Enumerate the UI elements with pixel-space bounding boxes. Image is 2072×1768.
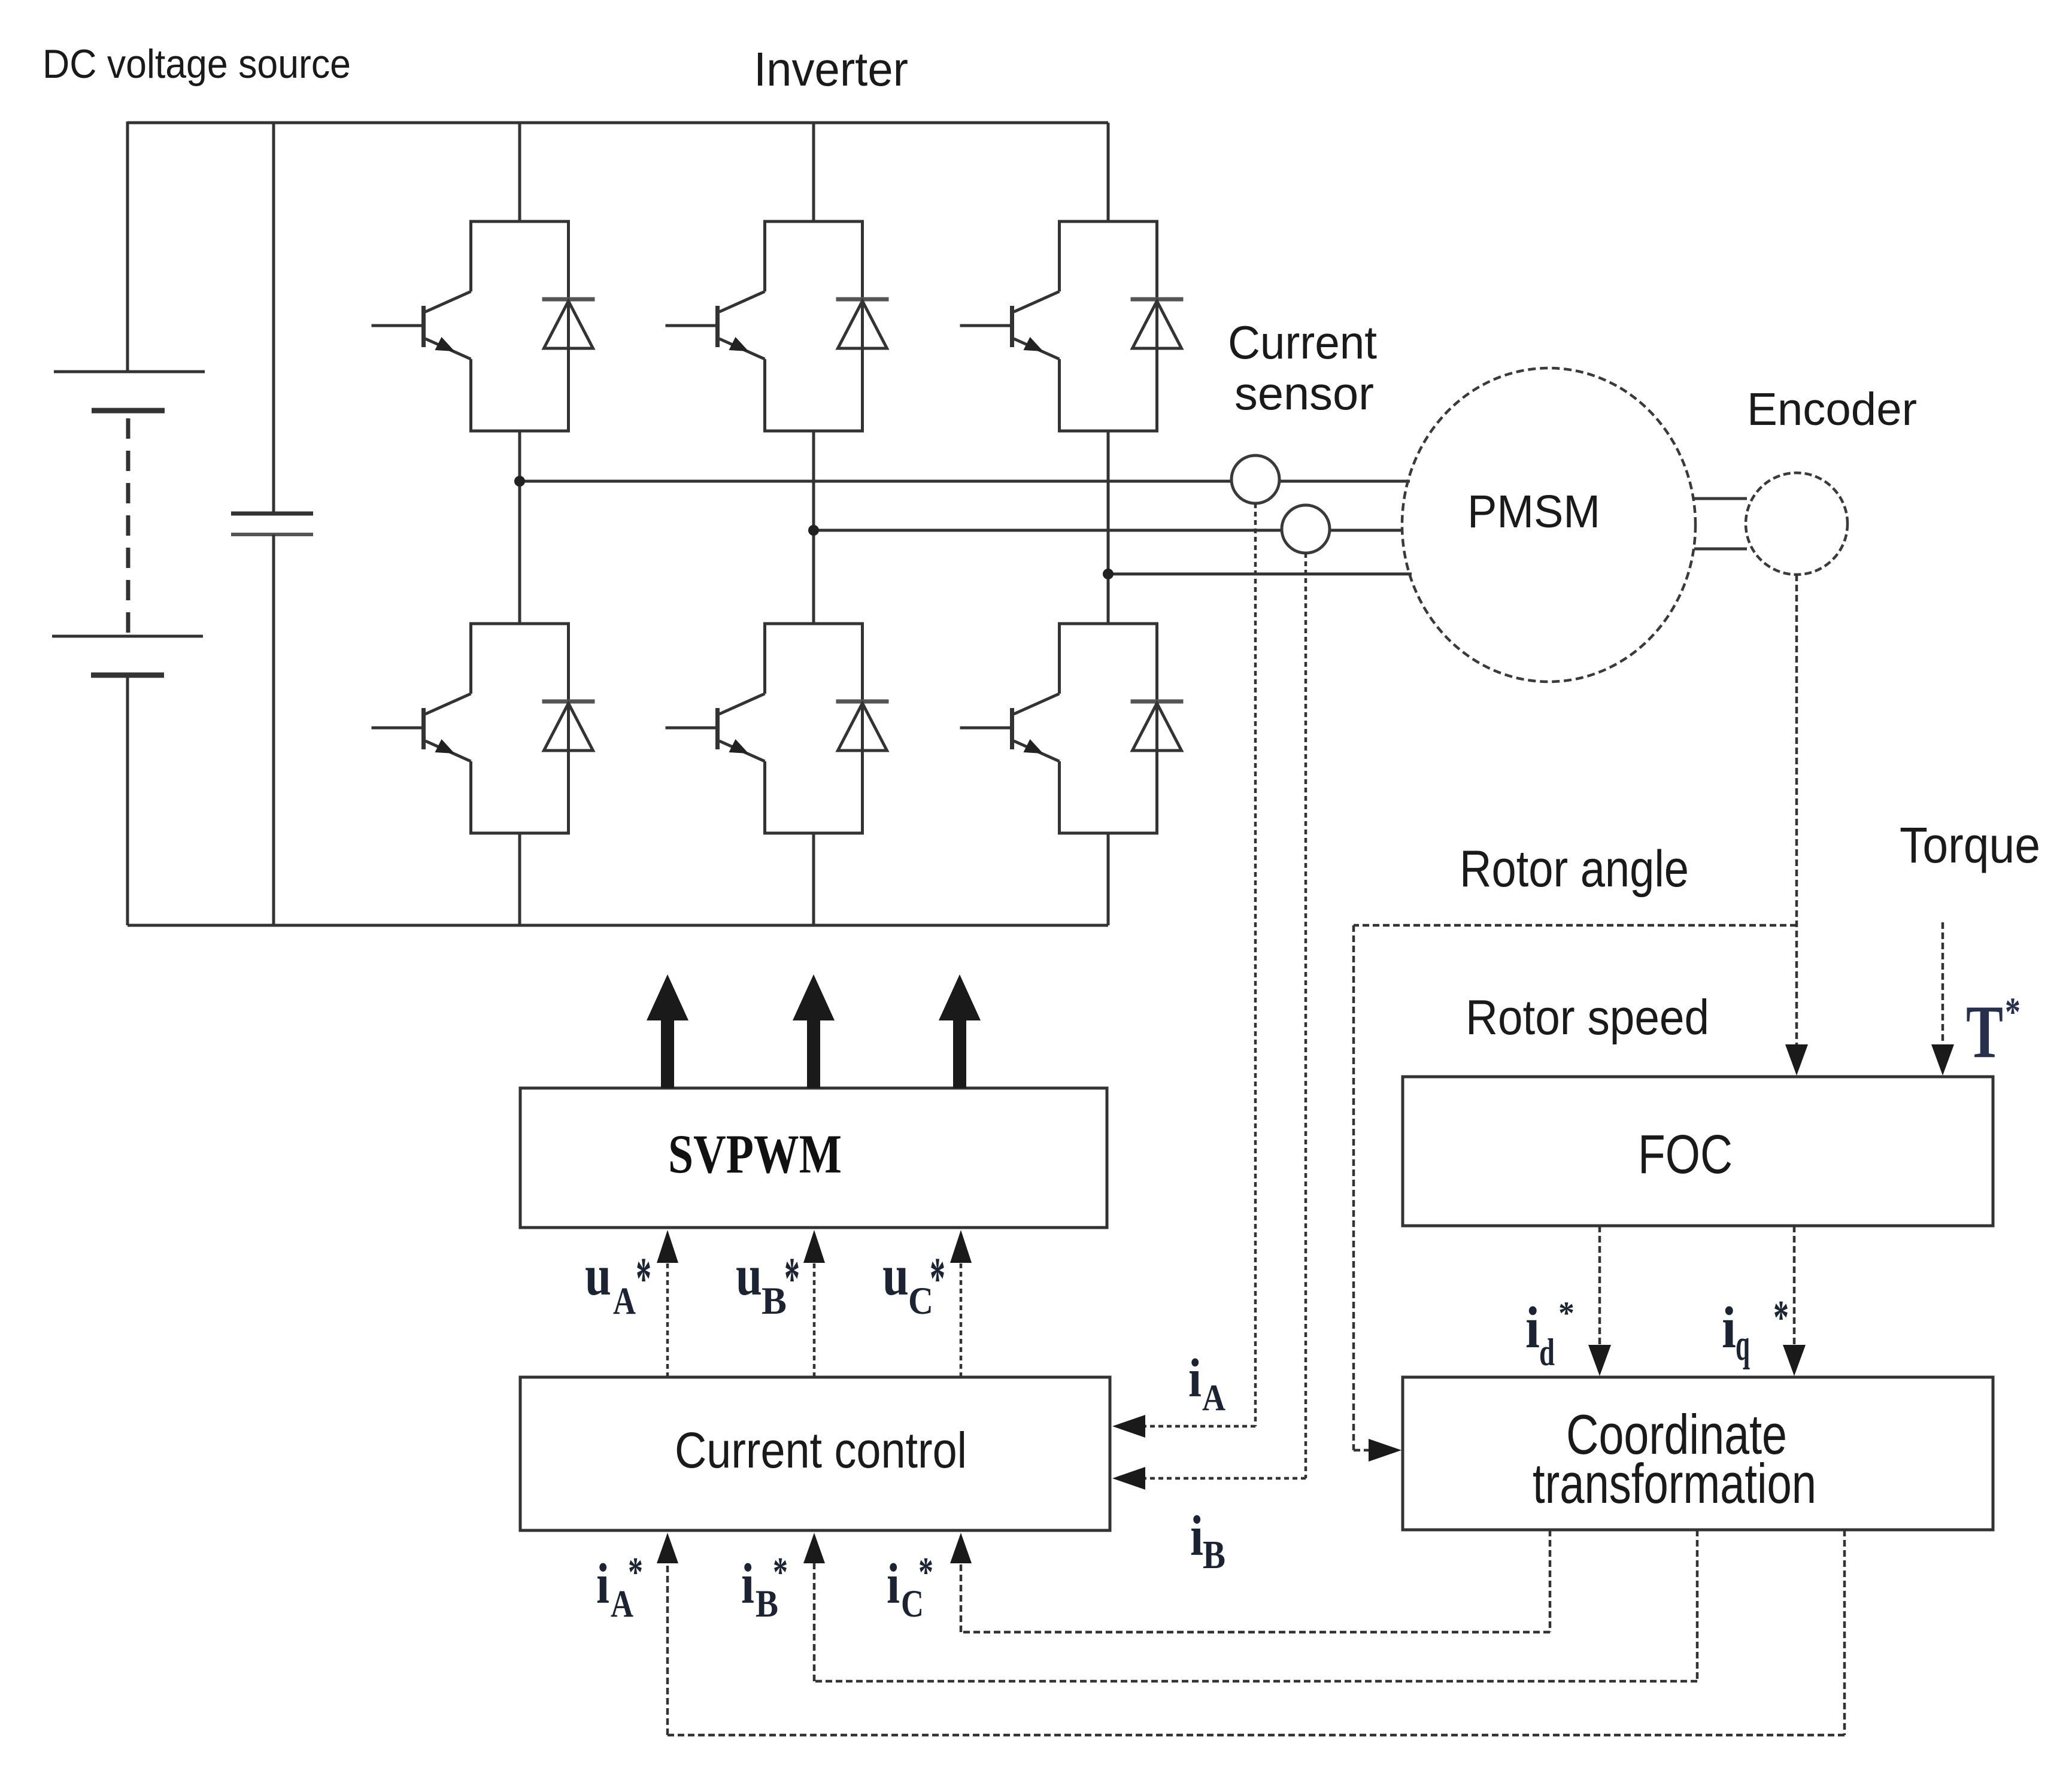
svg-text:i: i bbox=[596, 1552, 609, 1615]
svg-text:*: * bbox=[2005, 989, 2021, 1034]
svg-text:Current: Current bbox=[1228, 316, 1377, 369]
svg-text:B: B bbox=[1203, 1533, 1225, 1577]
svg-text:A: A bbox=[1202, 1378, 1225, 1418]
svg-text:i: i bbox=[1722, 1295, 1736, 1360]
svg-text:i: i bbox=[1190, 1504, 1203, 1567]
svg-text:q: q bbox=[1736, 1320, 1750, 1370]
svg-text:Encoder: Encoder bbox=[1747, 384, 1917, 435]
svg-text:*: * bbox=[918, 1550, 933, 1596]
svg-text:transformation: transformation bbox=[1533, 1452, 1816, 1515]
svg-text:u: u bbox=[736, 1243, 762, 1307]
svg-text:*: * bbox=[628, 1550, 643, 1596]
svg-text:*: * bbox=[773, 1550, 788, 1596]
svg-text:u: u bbox=[882, 1243, 909, 1307]
svg-text:i: i bbox=[887, 1552, 900, 1615]
svg-text:PMSM: PMSM bbox=[1467, 486, 1600, 537]
svg-text:i: i bbox=[1188, 1348, 1202, 1408]
svg-text:u: u bbox=[585, 1243, 611, 1307]
svg-text:Rotor angle: Rotor angle bbox=[1460, 840, 1689, 898]
svg-text:*: * bbox=[636, 1245, 651, 1311]
svg-text:*: * bbox=[1558, 1295, 1575, 1331]
svg-text:Torque: Torque bbox=[1900, 817, 2040, 873]
svg-text:SVPWM: SVPWM bbox=[668, 1123, 842, 1184]
svg-text:*: * bbox=[930, 1245, 945, 1311]
svg-text:d: d bbox=[1539, 1331, 1555, 1374]
svg-text:Rotor speed: Rotor speed bbox=[1466, 989, 1709, 1045]
svg-text:DC voltage source: DC voltage source bbox=[43, 41, 351, 87]
svg-text:FOC: FOC bbox=[1638, 1124, 1733, 1185]
svg-text:Current control: Current control bbox=[675, 1422, 967, 1478]
svg-text:i: i bbox=[1525, 1295, 1540, 1360]
svg-text:*: * bbox=[784, 1245, 800, 1311]
svg-text:B: B bbox=[762, 1280, 787, 1323]
svg-text:*: * bbox=[1773, 1290, 1789, 1344]
svg-text:i: i bbox=[741, 1552, 754, 1615]
svg-text:T: T bbox=[1966, 991, 2003, 1074]
svg-text:sensor: sensor bbox=[1234, 367, 1374, 420]
svg-text:A: A bbox=[613, 1280, 636, 1323]
svg-text:Inverter: Inverter bbox=[754, 42, 908, 96]
